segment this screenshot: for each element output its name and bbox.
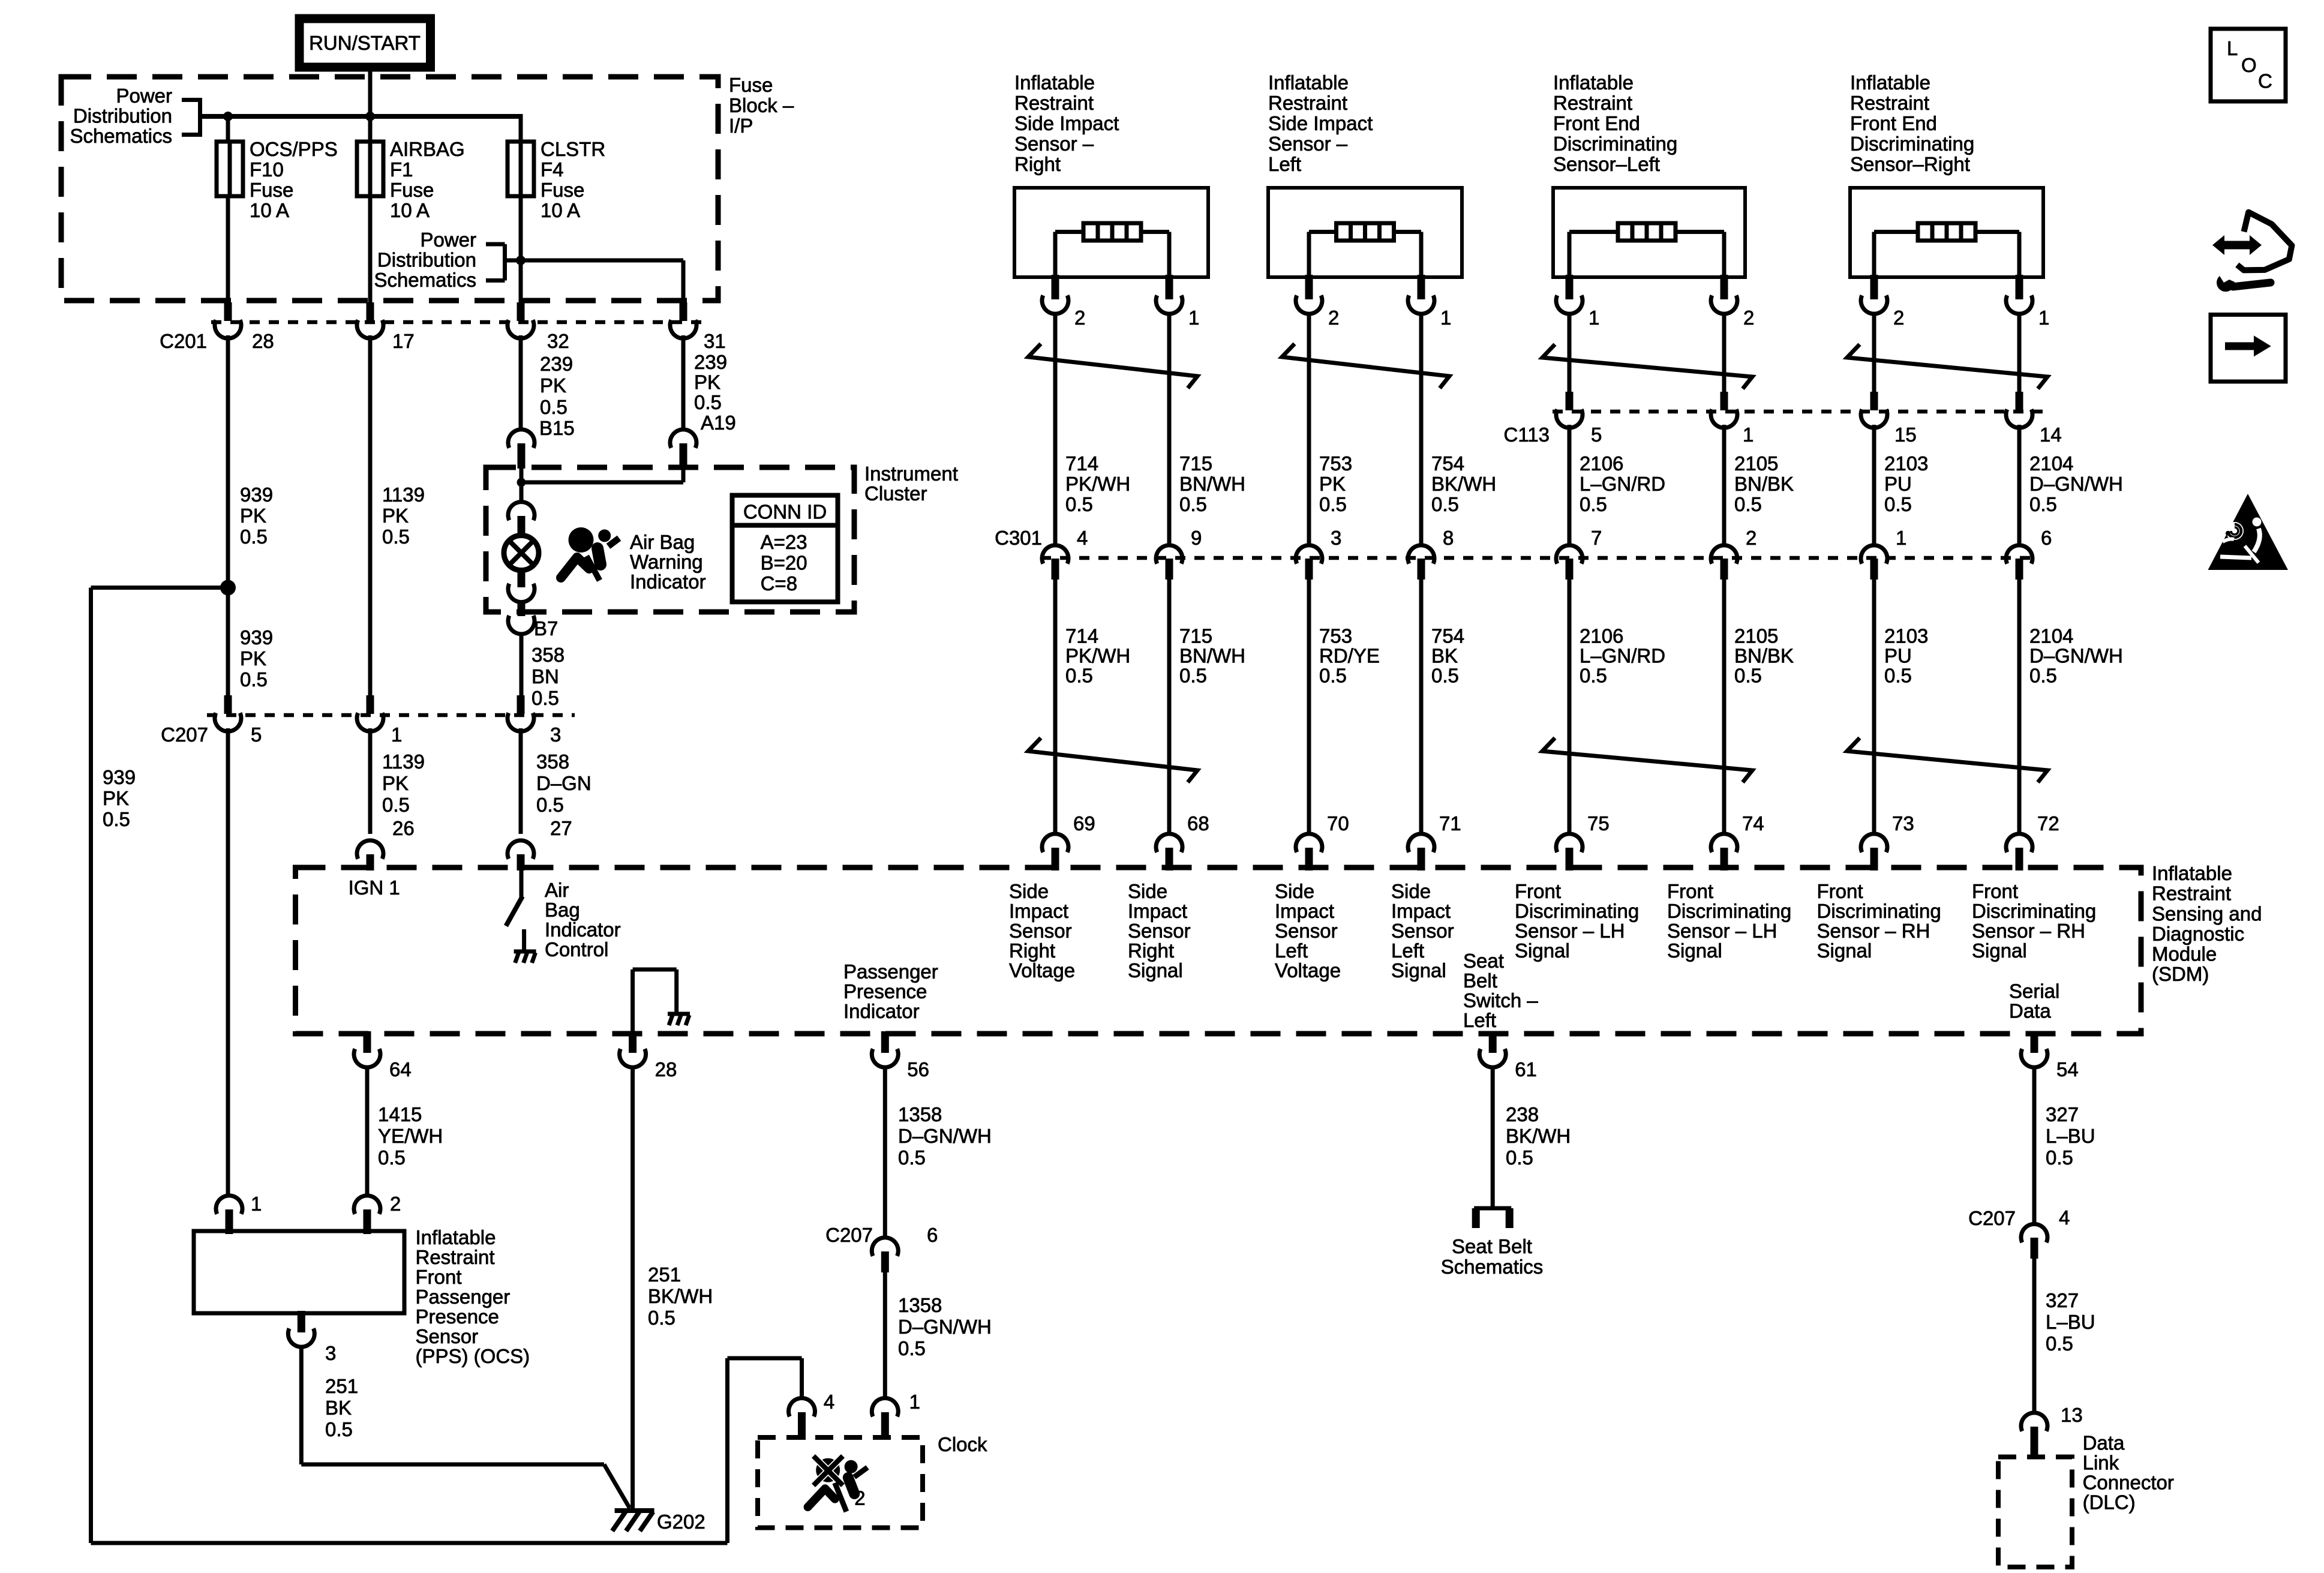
svg-text:Right: Right [1128, 939, 1174, 962]
wire sensor1 pin2 down [1053, 314, 1058, 545]
svg-text:1: 1 [1589, 307, 1599, 329]
svg-text:238: 238 [1506, 1103, 1539, 1125]
junction dot 939 PK split [220, 580, 236, 596]
connector C301 pin 4 [1042, 545, 1068, 564]
data exchange / tool icon [2212, 235, 2262, 255]
svg-text:251: 251 [325, 1375, 358, 1397]
svg-text:Sensor: Sensor [1275, 920, 1338, 942]
svg-text:0.5: 0.5 [1734, 493, 1762, 515]
svg-text:Inflatable: Inflatable [416, 1226, 496, 1248]
wire branch to pin 31 [521, 259, 683, 263]
svg-text:75: 75 [1587, 812, 1610, 834]
wire sensor2 pin2 down [1307, 314, 1311, 545]
svg-text:Switch –: Switch – [1463, 989, 1538, 1011]
svg-text:F1: F1 [390, 158, 413, 181]
svg-text:Sensor – LH: Sensor – LH [1515, 920, 1625, 942]
wire to SDM pin 71 [1419, 580, 1424, 834]
svg-text:L–GN/RD: L–GN/RD [1580, 473, 1665, 495]
svg-text:RD/YE: RD/YE [1319, 645, 1380, 667]
junction dot air bag lamp feed [517, 478, 526, 487]
wire to SDM pin 73 [1872, 580, 1876, 834]
SDM pin 56 [881, 1031, 889, 1053]
svg-text:Indicator: Indicator [545, 918, 621, 941]
svg-text:Power: Power [116, 85, 172, 107]
SDM internal ground symbol [668, 1012, 690, 1016]
svg-text:Restraint: Restraint [416, 1246, 495, 1268]
svg-text:1358: 1358 [898, 1103, 942, 1125]
svg-text:239: 239 [540, 353, 573, 375]
svg-text:2104: 2104 [2029, 625, 2073, 647]
wire 1415 YE/WH [365, 1067, 370, 1196]
svg-text:L–BU: L–BU [2046, 1125, 2095, 1147]
wire C113-15 to C301 [1872, 425, 1876, 545]
SDM pin 68 [1156, 834, 1182, 852]
svg-text:B=20: B=20 [761, 552, 807, 574]
svg-text:71: 71 [1439, 812, 1461, 834]
wire 239 PK pin32 to B15 [519, 335, 523, 431]
svg-text:BK/WH: BK/WH [1506, 1125, 1571, 1147]
svg-text:Module: Module [2152, 943, 2217, 965]
PPS box [194, 1231, 404, 1313]
svg-text:O: O [2241, 54, 2257, 76]
connector C201 dashed line [211, 320, 710, 325]
svg-text:Passenger: Passenger [843, 960, 938, 983]
svg-text:0.5: 0.5 [1580, 665, 1607, 687]
svg-text:0.5: 0.5 [1431, 493, 1459, 515]
svg-text:0.5: 0.5 [536, 794, 564, 816]
SDM pin 64 [364, 1031, 371, 1053]
svg-text:Link: Link [2083, 1452, 2119, 1474]
wire sensor4 pin2 down [1872, 314, 1876, 392]
airbag caution triangle [2208, 494, 2289, 570]
svg-text:10 A: 10 A [390, 199, 430, 221]
svg-text:72: 72 [2037, 812, 2059, 834]
connector C301 pin 9 [1156, 545, 1182, 564]
connector C113 pin 15 [1870, 392, 1878, 410]
wire sensor2 pin1 down [1419, 314, 1424, 545]
SDM pin 69 [1042, 834, 1068, 852]
air bag warning indicator lamp socket bottom [518, 571, 526, 587]
svg-text:L: L [2227, 37, 2238, 59]
SDM pin 54 [2031, 1031, 2038, 1053]
svg-text:Inflatable: Inflatable [1850, 71, 1930, 94]
svg-text:B15: B15 [539, 417, 575, 439]
svg-text:Cluster: Cluster [864, 482, 927, 505]
SDM pin 72 [2006, 834, 2032, 852]
svg-text:2103: 2103 [1884, 625, 1928, 647]
svg-text:15: 15 [1894, 424, 1917, 446]
svg-text:D–GN/WH: D–GN/WH [2029, 473, 2123, 495]
sensor 4 pin right [2016, 275, 2023, 299]
svg-text:Data: Data [2083, 1432, 2125, 1454]
svg-text:Sensor: Sensor [1391, 920, 1454, 942]
svg-text:A=23: A=23 [761, 531, 807, 553]
svg-text:0.5: 0.5 [1884, 493, 1912, 515]
svg-text:Sensor: Sensor [416, 1325, 479, 1347]
air bag warning indicator lamp socket top [508, 502, 535, 521]
svg-text:715: 715 [1179, 625, 1212, 647]
svg-text:F4: F4 [541, 158, 564, 181]
svg-text:0.5: 0.5 [694, 391, 722, 413]
svg-text:Impact: Impact [1128, 900, 1187, 922]
svg-text:C207: C207 [825, 1224, 873, 1246]
svg-text:Front: Front [1515, 880, 1561, 902]
svg-text:PK: PK [540, 374, 566, 397]
power distribution bracket right [503, 244, 507, 281]
svg-text:0.5: 0.5 [240, 526, 268, 548]
svg-text:0.5: 0.5 [1884, 665, 1912, 687]
wire C207-5 to PPS pin 1 [226, 728, 230, 1196]
connector C201 pin 17 [367, 302, 374, 321]
svg-text:D–GN/WH: D–GN/WH [2029, 645, 2123, 667]
svg-text:754: 754 [1431, 452, 1464, 475]
svg-text:32: 32 [547, 330, 569, 352]
svg-text:Control: Control [545, 938, 608, 960]
svg-text:BN/BK: BN/BK [1734, 645, 1794, 667]
svg-text:Side: Side [1128, 880, 1167, 902]
svg-text:74: 74 [1742, 812, 1764, 834]
connector C301 pin 7 [1556, 545, 1583, 564]
svg-text:L–BU: L–BU [2046, 1311, 2095, 1333]
wire OCS fuse output [226, 196, 230, 304]
connector C113 pin 14 [2016, 392, 2023, 410]
wire to SDM pin 74 [1722, 580, 1727, 834]
wire to SDM pin 69 [1053, 580, 1058, 834]
SDM dashed box [296, 867, 2142, 1034]
connector C201 pin 32 [517, 302, 525, 321]
svg-text:Restraint: Restraint [1850, 92, 1929, 114]
connector C301 pin 1 [1861, 545, 1887, 564]
svg-text:G202: G202 [657, 1511, 705, 1533]
svg-text:Right: Right [1014, 153, 1061, 175]
wire RUN/START to bus [368, 67, 373, 116]
SDM pin 61 [1489, 1031, 1497, 1053]
svg-text:Side: Side [1275, 880, 1314, 902]
PPS pin 1 [216, 1196, 242, 1214]
SDM pin 27 [508, 840, 534, 859]
svg-text:Serial: Serial [2009, 980, 2059, 1002]
svg-text:9: 9 [1191, 527, 1202, 549]
wire C113-5 to C301 [1568, 425, 1572, 545]
power distribution bracket left [198, 98, 202, 137]
svg-text:Front End: Front End [1553, 112, 1640, 134]
svg-text:(DLC): (DLC) [2083, 1491, 2136, 1514]
wire 238 BK/WH [1491, 1067, 1495, 1206]
svg-text:PK/WH: PK/WH [1065, 645, 1130, 667]
svg-text:1: 1 [391, 724, 402, 746]
svg-text:54: 54 [2056, 1058, 2079, 1080]
wire 251 BK/WH [630, 1067, 635, 1508]
svg-text:31: 31 [704, 330, 726, 352]
svg-text:939: 939 [240, 626, 273, 649]
wire sensor4 pin1 down [2017, 314, 2022, 392]
svg-text:Inflatable: Inflatable [1553, 71, 1634, 94]
svg-text:4: 4 [1077, 527, 1088, 549]
wire C207-1 to SDM 26 [368, 728, 373, 834]
connector C201 pin 31 [680, 302, 687, 321]
svg-text:Front: Front [1667, 880, 1713, 902]
svg-text:Right: Right [1009, 939, 1055, 962]
svg-text:2106: 2106 [1580, 625, 1623, 647]
svg-text:(SDM): (SDM) [2152, 963, 2209, 985]
svg-text:251: 251 [648, 1263, 681, 1286]
SDM pin 26 [357, 840, 383, 859]
svg-text:5: 5 [1591, 424, 1602, 446]
wire sensor3 pin1 down [1568, 314, 1572, 392]
wire AIRBAG fuse output [368, 196, 373, 304]
svg-text:2: 2 [1074, 307, 1085, 329]
clock pin 1 [872, 1398, 898, 1416]
svg-text:0.5: 0.5 [898, 1146, 926, 1169]
wire 327 upper [2032, 1067, 2037, 1224]
svg-text:0.5: 0.5 [382, 794, 410, 816]
wire to SDM pin 68 [1167, 580, 1172, 834]
svg-text:Seat Belt: Seat Belt [1452, 1235, 1532, 1257]
svg-text:Restraint: Restraint [2152, 882, 2231, 905]
air bag warning indicator lamp [504, 536, 539, 571]
svg-text:BN/BK: BN/BK [1734, 473, 1794, 495]
svg-text:1: 1 [2038, 307, 2049, 329]
svg-text:1358: 1358 [898, 1294, 942, 1316]
connector C201 pin 28 [224, 302, 232, 321]
svg-text:0.5: 0.5 [1179, 493, 1207, 515]
svg-text:CONN ID: CONN ID [743, 501, 827, 523]
svg-text:Left: Left [1391, 939, 1424, 962]
svg-text:Sensor–Left: Sensor–Left [1553, 153, 1660, 175]
svg-text:3: 3 [550, 724, 561, 746]
svg-text:239: 239 [694, 351, 727, 373]
DLC pin 13 [2021, 1413, 2047, 1431]
connector A19 pin [670, 430, 696, 448]
ground G202 [615, 1508, 654, 1513]
svg-text:Schematics: Schematics [1441, 1256, 1544, 1278]
svg-text:8: 8 [1443, 527, 1454, 549]
svg-text:Air Bag: Air Bag [630, 531, 695, 553]
svg-text:Warning: Warning [630, 551, 703, 573]
svg-text:Inflatable: Inflatable [2152, 862, 2232, 884]
svg-text:1139: 1139 [382, 484, 425, 506]
svg-text:5: 5 [251, 724, 262, 746]
svg-text:PU: PU [1884, 473, 1912, 495]
svg-text:56: 56 [907, 1058, 929, 1080]
connector C207 pin 1 [367, 695, 374, 714]
wire OCS fuse feed [226, 116, 230, 142]
svg-text:(PPS) (OCS): (PPS) (OCS) [416, 1345, 530, 1367]
svg-text:D–GN/WH: D–GN/WH [898, 1316, 992, 1338]
svg-text:4: 4 [824, 1391, 834, 1413]
seat belt off-page symbol [1474, 1206, 1511, 1211]
svg-text:B7: B7 [534, 617, 558, 640]
wire 939 PK left loop [89, 588, 93, 1544]
wire 251 BK [299, 1347, 304, 1464]
svg-text:C207: C207 [161, 724, 208, 746]
svg-text:Inflatable: Inflatable [1268, 71, 1349, 94]
svg-text:7: 7 [1591, 527, 1602, 549]
air bag indicator control switch [520, 870, 524, 898]
svg-text:28: 28 [252, 330, 274, 352]
svg-text:69: 69 [1073, 812, 1095, 834]
SDM pin 71 [1408, 834, 1434, 852]
svg-text:2103: 2103 [1884, 452, 1928, 475]
wire CLSTR fuse output [519, 196, 523, 302]
svg-text:0.5: 0.5 [2029, 493, 2057, 515]
wire B15 into cluster [520, 469, 524, 502]
svg-text:754: 754 [1431, 625, 1464, 647]
svg-text:Diagnostic: Diagnostic [2152, 923, 2244, 945]
wire 327 lower [2032, 1259, 2037, 1413]
svg-text:2: 2 [390, 1193, 401, 1215]
svg-text:0.5: 0.5 [103, 808, 130, 830]
svg-text:0.5: 0.5 [1179, 665, 1207, 687]
svg-text:AIRBAG: AIRBAG [390, 138, 465, 160]
svg-text:IGN 1: IGN 1 [349, 876, 400, 899]
wire to SDM pin 75 [1568, 580, 1572, 834]
svg-text:Side: Side [1009, 880, 1049, 902]
junction dot at OCS fuse feed [223, 112, 233, 121]
svg-text:PK: PK [240, 647, 266, 670]
SDM pin 75 [1556, 834, 1583, 852]
svg-text:BK: BK [1431, 645, 1458, 667]
svg-text:PK: PK [1319, 473, 1346, 495]
wire 939 PK lower [226, 588, 230, 697]
airbag icon in clock [816, 1458, 840, 1482]
svg-text:73: 73 [1892, 812, 1914, 834]
svg-text:0.5: 0.5 [2046, 1146, 2073, 1169]
svg-text:PK: PK [382, 772, 409, 794]
svg-text:939: 939 [103, 766, 136, 788]
svg-text:1: 1 [1743, 424, 1753, 446]
svg-text:Inflatable: Inflatable [1014, 71, 1095, 94]
svg-text:1139: 1139 [382, 751, 425, 773]
svg-text:13: 13 [2061, 1404, 2083, 1426]
svg-text:Air: Air [545, 879, 569, 901]
svg-text:RUN/START: RUN/START [309, 32, 421, 54]
fuse block I/P dashed box [61, 77, 718, 301]
svg-text:Indicator: Indicator [843, 1000, 920, 1022]
wire branch to A19 [521, 481, 683, 485]
wire 239 PK pin31 to A19 [681, 335, 686, 431]
svg-text:Signal: Signal [1128, 959, 1183, 981]
svg-text:Signal: Signal [1391, 959, 1446, 981]
wire 1358 lower [883, 1272, 887, 1399]
junction dot at AIRBAG fuse feed [365, 112, 375, 121]
SDM internal ground wiring pin 28 [630, 969, 635, 1034]
svg-text:0.5: 0.5 [1319, 493, 1347, 515]
svg-text:F10: F10 [250, 158, 284, 181]
svg-text:2105: 2105 [1734, 625, 1778, 647]
svg-text:BN/WH: BN/WH [1179, 645, 1245, 667]
sensor box 3 [1553, 188, 1745, 277]
svg-text:C: C [2258, 70, 2272, 92]
svg-text:Power: Power [420, 229, 476, 251]
svg-text:3: 3 [325, 1342, 336, 1364]
instrument cluster dashed box [486, 467, 854, 612]
svg-text:61: 61 [1515, 1058, 1537, 1080]
svg-text:Side: Side [1391, 880, 1431, 902]
wire AIRBAG fuse feed [368, 116, 373, 142]
svg-text:715: 715 [1179, 452, 1212, 475]
svg-text:Sensor – LH: Sensor – LH [1667, 920, 1777, 942]
svg-text:4: 4 [2059, 1206, 2070, 1229]
svg-text:BK/WH: BK/WH [648, 1285, 713, 1307]
svg-text:Fuse: Fuse [390, 179, 434, 201]
svg-text:68: 68 [1187, 812, 1209, 834]
sensor 4 pin left [1870, 275, 1878, 299]
svg-text:Front End: Front End [1850, 112, 1937, 134]
svg-text:Distribution: Distribution [377, 249, 476, 271]
fuse F1 AIRBAG [357, 142, 383, 196]
svg-text:Clock: Clock [938, 1433, 987, 1455]
twisted pair sensor1 [1028, 344, 1197, 388]
connector C113 pin 5 [1566, 392, 1574, 410]
svg-text:Sensor –: Sensor – [1268, 133, 1348, 155]
svg-text:Passenger: Passenger [416, 1286, 511, 1308]
wire C207-3 to SDM 27 [519, 728, 523, 834]
connector B15 pin [508, 430, 535, 448]
svg-text:2: 2 [1893, 307, 1904, 329]
svg-text:14: 14 [2040, 424, 2062, 446]
svg-text:Sensor –: Sensor – [1014, 133, 1094, 155]
svg-text:64: 64 [389, 1058, 412, 1080]
svg-text:A19: A19 [701, 412, 736, 434]
svg-text:PK: PK [694, 371, 720, 394]
svg-text:0.5: 0.5 [1065, 665, 1093, 687]
svg-text:0.5: 0.5 [540, 396, 568, 418]
svg-text:L–GN/RD: L–GN/RD [1580, 645, 1665, 667]
svg-text:Sensing and: Sensing and [2152, 902, 2262, 924]
air bag icon in cluster [569, 527, 594, 553]
svg-text:10 A: 10 A [541, 199, 580, 221]
svg-text:Front: Front [1972, 880, 2018, 902]
twisted pair sensor2 [1282, 344, 1449, 388]
air bag indicator control ground [514, 950, 536, 954]
svg-text:D–GN: D–GN [536, 772, 591, 794]
svg-text:Sensor: Sensor [1009, 920, 1072, 942]
svg-text:Restraint: Restraint [1268, 92, 1347, 114]
DLC dashed box [1998, 1457, 2072, 1568]
CONN ID table [732, 496, 838, 602]
svg-text:Front: Front [416, 1266, 462, 1288]
svg-text:Discriminating: Discriminating [1667, 900, 1791, 922]
junction dot CLSTR branch [516, 256, 526, 265]
connector C207 pin 6 [872, 1238, 898, 1256]
svg-text:0.5: 0.5 [1506, 1146, 1533, 1169]
svg-text:753: 753 [1319, 452, 1352, 475]
wire lamp to B7 [520, 601, 524, 602]
svg-text:Left: Left [1268, 153, 1301, 175]
svg-text:Fuse: Fuse [729, 74, 773, 96]
fuse F10 OCS/PPS [217, 142, 243, 196]
svg-text:CLSTR: CLSTR [541, 138, 605, 160]
svg-text:6: 6 [2041, 527, 2052, 549]
connector C207 pin 5 [224, 695, 232, 714]
connector C301 pin 2 [1711, 545, 1737, 564]
svg-text:26: 26 [392, 817, 415, 839]
svg-text:Bag: Bag [545, 899, 580, 921]
connector C113 pin 1 [1721, 392, 1728, 410]
svg-text:Left: Left [1463, 1009, 1496, 1031]
clock pin 4 [789, 1398, 815, 1416]
svg-text:OCS/PPS: OCS/PPS [250, 138, 338, 160]
svg-text:Belt: Belt [1463, 969, 1497, 992]
connector C301 pin 3 [1296, 545, 1322, 564]
svg-text:1: 1 [909, 1391, 920, 1413]
wire C113-14 to C301 [2017, 425, 2022, 545]
svg-text:Side Impact: Side Impact [1014, 112, 1119, 134]
svg-text:0.5: 0.5 [1319, 665, 1347, 687]
svg-text:BK: BK [325, 1397, 352, 1419]
svg-text:2105: 2105 [1734, 452, 1778, 475]
